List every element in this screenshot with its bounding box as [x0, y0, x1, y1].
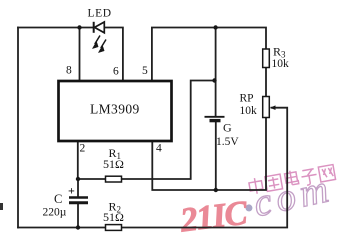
wire RP wiper to bottom rail	[123, 108, 288, 228]
svg-text:8: 8	[66, 65, 72, 77]
junction node pin2/R1/C	[76, 177, 80, 181]
resistor R3 body	[263, 49, 270, 68]
capacitor C plates	[69, 198, 88, 203]
svg-text:6: 6	[113, 66, 119, 78]
RP wiper arrowhead	[270, 105, 276, 110]
svg-text:LED: LED	[88, 8, 112, 20]
op-amp/IC U1 LM3909 box	[59, 81, 172, 141]
LED D1 symbol	[94, 22, 105, 33]
junction node C bottom rail	[76, 225, 80, 229]
wire capacitor bottom lead	[77, 204, 79, 228]
svg-text:220µ: 220µ	[43, 207, 67, 219]
LED emission arrows	[92, 36, 106, 53]
wire LED to pin 6	[105, 28, 123, 82]
resistor R1 body	[106, 176, 122, 182]
resistor R2 body	[106, 225, 122, 231]
junction node battery+ top rail	[213, 25, 217, 29]
junction node at LED anode / pin 8	[77, 25, 81, 29]
junction node battery- bottom	[214, 188, 218, 192]
wire R3 to RP	[265, 68, 267, 97]
wire pin 8 drop	[79, 28, 81, 82]
junction node R1 to battery+	[212, 78, 216, 82]
svg-text:RP: RP	[240, 93, 254, 105]
battery G plates	[205, 117, 225, 121]
watermark 中国电子网	[248, 163, 336, 195]
wire bottom rail left of R2	[18, 227, 106, 229]
svg-text:C: C	[54, 192, 62, 206]
wire RP bottom to pin 4	[152, 118, 266, 191]
wire pin 5 to top rail to R3	[152, 28, 266, 82]
watermark .com	[241, 167, 337, 228]
wire top-left rail	[18, 27, 93, 29]
svg-text:10k: 10k	[240, 105, 258, 117]
svg-text:4: 4	[156, 143, 162, 155]
svg-text:2: 2	[80, 143, 86, 155]
potentiometer RP body	[263, 97, 270, 118]
svg-text:51Ω: 51Ω	[103, 210, 124, 224]
wire battery negative lead	[215, 121, 217, 190]
svg-text:+: +	[68, 184, 75, 198]
svg-text:10k: 10k	[272, 58, 290, 70]
svg-text:LM3909: LM3909	[90, 102, 140, 117]
wire R1 right to battery positive	[122, 81, 215, 180]
svg-text:1.5V: 1.5V	[216, 136, 239, 148]
wire left frame	[17, 28, 19, 228]
svg-text:51Ω: 51Ω	[103, 157, 124, 171]
svg-text:5: 5	[142, 65, 148, 77]
wire capacitor top lead	[77, 179, 79, 197]
wire battery positive lead	[215, 28, 217, 117]
wire R1 left lead	[78, 178, 106, 180]
scan speck left edge	[0, 203, 3, 210]
svg-text:G: G	[223, 121, 232, 135]
wire pin 2 drop	[77, 142, 79, 179]
